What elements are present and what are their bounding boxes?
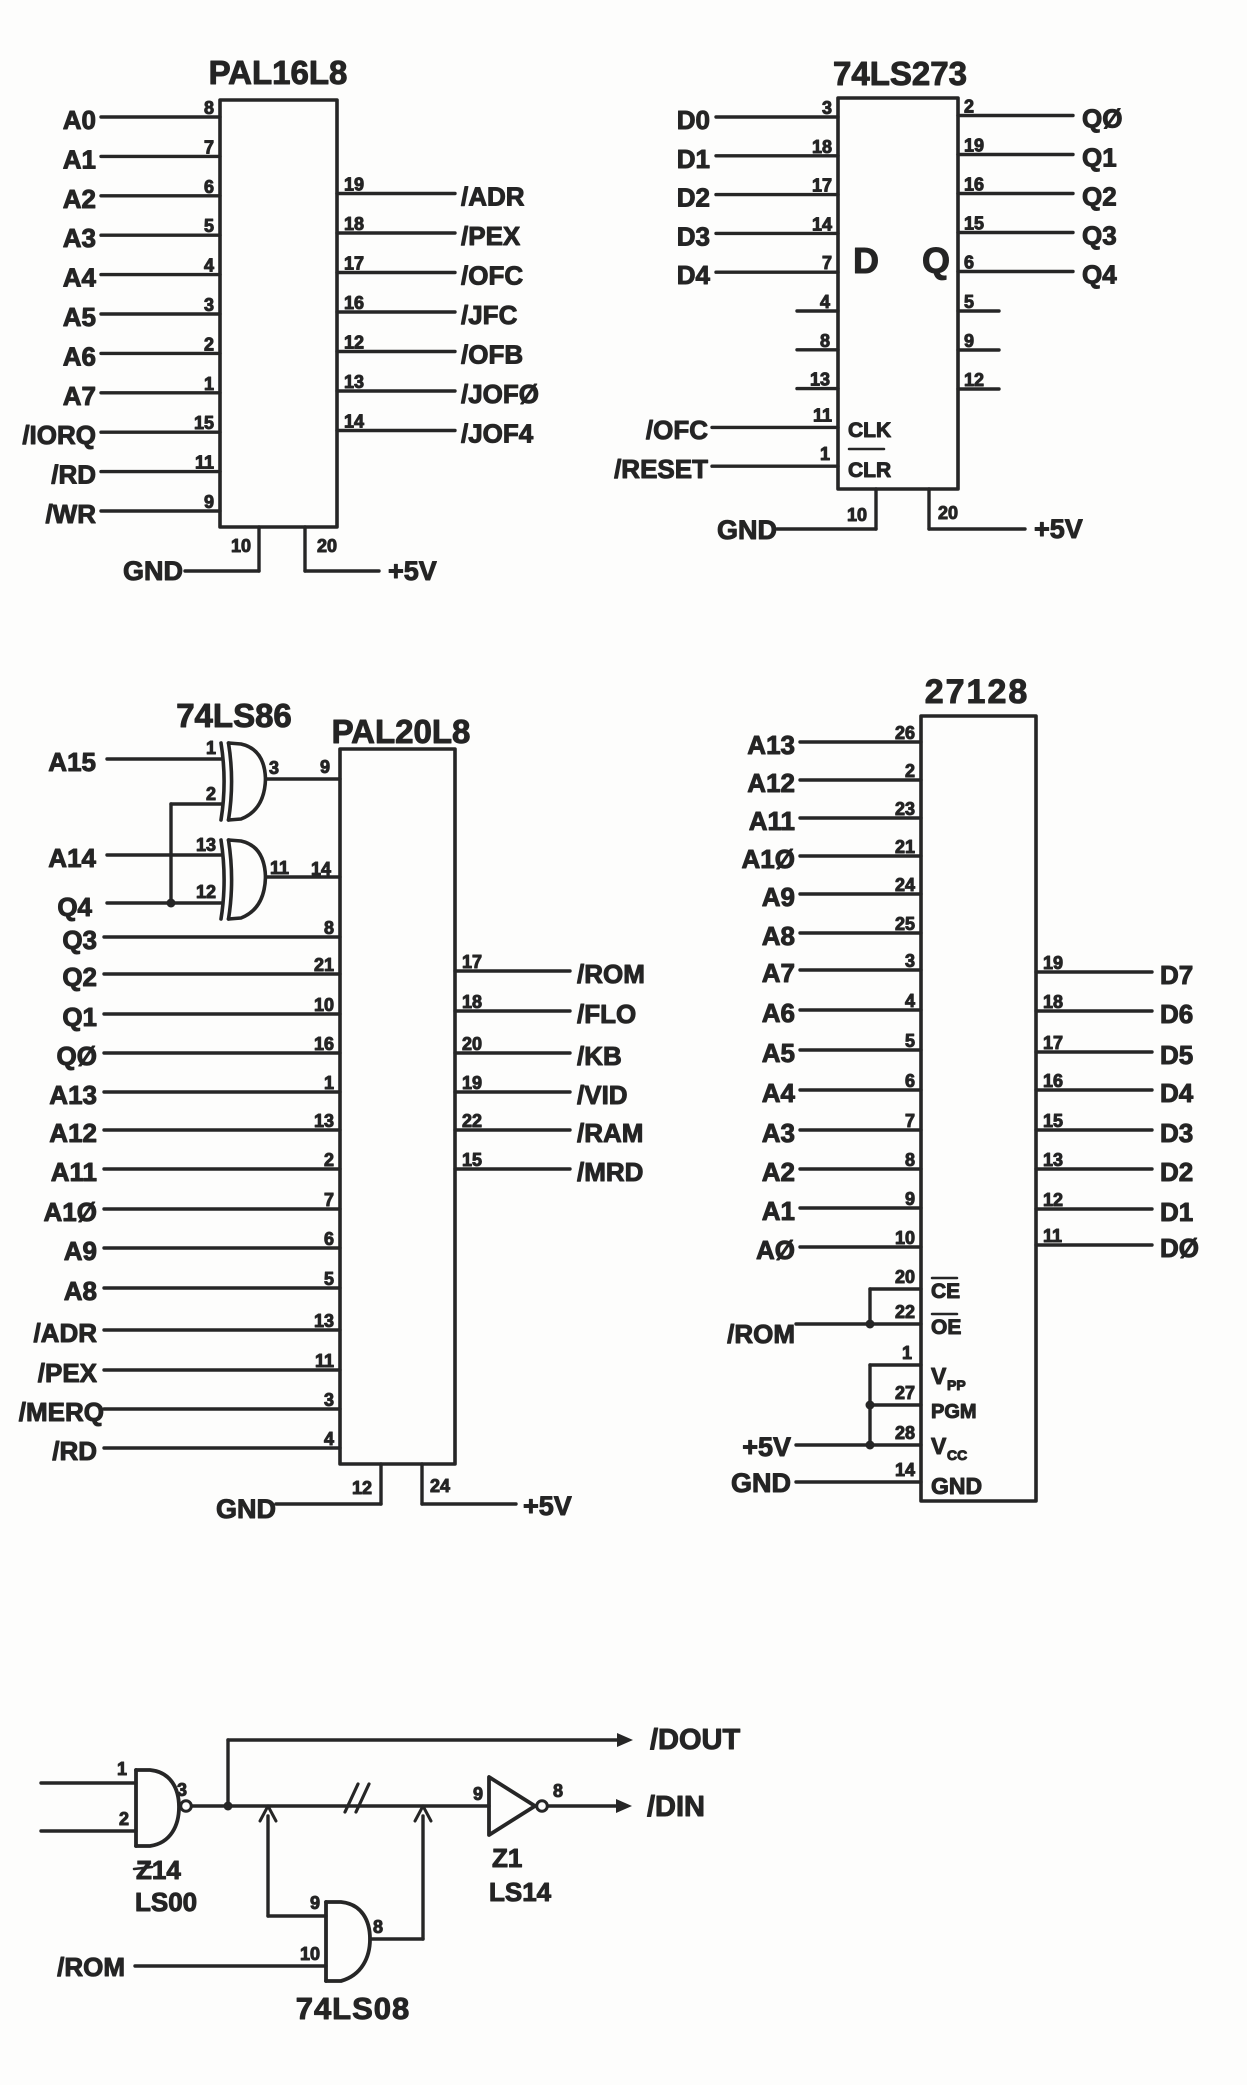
wire U2 pin 3 input D0 — [677, 98, 838, 135]
svg-text:D1: D1 — [677, 144, 710, 174]
wire U5 pin 4 input A6 — [762, 991, 921, 1028]
svg-text:Q4: Q4 — [57, 892, 92, 922]
svg-text:A9: A9 — [762, 882, 795, 912]
svg-text:14: 14 — [895, 1460, 915, 1480]
wire net Q4 branch to U3a pin 2 — [169, 804, 172, 903]
wire Z14 pin 3 output node — [177, 1780, 489, 1806]
IC U1 PAL16L8 body — [220, 100, 337, 527]
svg-text:D: D — [853, 240, 879, 281]
wire U2 pin 13 unused input stub — [797, 370, 838, 390]
wire U4 pin 4 input /RD — [52, 1429, 340, 1466]
svg-text:19: 19 — [462, 1073, 482, 1093]
svg-text:V: V — [931, 1433, 947, 1459]
svg-text:A5: A5 — [762, 1038, 795, 1068]
svg-text:1: 1 — [204, 374, 214, 394]
svg-text:AØ: AØ — [756, 1235, 795, 1265]
wire U1 pin 9 input /WR — [45, 492, 220, 529]
wire U5 pin 1 VPP stub — [870, 1343, 966, 1393]
svg-text:27128: 27128 — [925, 673, 1030, 711]
svg-text:/VID: /VID — [577, 1080, 628, 1110]
svg-text:17: 17 — [1043, 1033, 1063, 1053]
svg-text:+5V: +5V — [742, 1432, 791, 1462]
svg-text:V: V — [931, 1363, 947, 1389]
wire U4 pin 16 input QØ — [57, 1034, 340, 1071]
wire U5 pin 25 input A8 — [762, 914, 921, 951]
wire U4 pin 15 output /MRD — [455, 1150, 643, 1187]
wire U5 pin 9 input A1 — [762, 1189, 921, 1226]
svg-text:3: 3 — [822, 98, 832, 118]
svg-text:12: 12 — [1043, 1190, 1063, 1210]
svg-text:/PEX: /PEX — [38, 1358, 98, 1388]
wire U1 pin 16 output /JFC — [337, 293, 518, 330]
svg-text:21: 21 — [314, 955, 334, 975]
wire U1 pin 19 output /ADR — [337, 175, 525, 212]
svg-text:Q3: Q3 — [1082, 221, 1117, 251]
svg-text:A0: A0 — [63, 105, 96, 135]
svg-text:3: 3 — [905, 951, 915, 971]
svg-text:13: 13 — [314, 1311, 334, 1331]
wire U5 pin 27 PGM stub — [870, 1383, 977, 1423]
svg-text:7: 7 — [324, 1190, 334, 1210]
svg-text:1: 1 — [902, 1343, 912, 1363]
wire U5 pin 22 OE input /ROM — [727, 1302, 961, 1349]
junction /ROM at OE — [866, 1320, 875, 1329]
wire Z14 pin 1 input — [41, 1759, 136, 1783]
svg-text:74LS273: 74LS273 — [833, 55, 967, 92]
svg-text:Q4: Q4 — [1082, 260, 1117, 290]
wire U5 pin 15 output D3 — [1036, 1111, 1193, 1148]
wire U1 pin 7 input A1 — [63, 137, 220, 174]
svg-text:A7: A7 — [762, 958, 795, 988]
svg-text:10: 10 — [847, 505, 867, 525]
svg-text:/ROM: /ROM — [577, 959, 645, 989]
svg-text:4: 4 — [905, 991, 915, 1011]
wire U5 pin 18 output D6 — [1036, 992, 1193, 1029]
svg-text:A2: A2 — [63, 184, 96, 214]
svg-text:9: 9 — [310, 1893, 320, 1913]
wire U5 pin 26 input A13 — [747, 723, 921, 760]
svg-text:9: 9 — [320, 757, 330, 777]
wire U1 pin 13 output /JOFØ — [337, 372, 539, 409]
svg-text:D1: D1 — [1160, 1197, 1193, 1227]
wire Z15 pin 10 input /ROM — [57, 1944, 326, 1982]
wire Z14 pin 2 input — [41, 1809, 136, 1831]
svg-text:11: 11 — [813, 405, 832, 425]
svg-text:A6: A6 — [63, 341, 96, 371]
svg-text:A12: A12 — [49, 1118, 97, 1148]
svg-text:+5V: +5V — [523, 1491, 572, 1521]
svg-text:19: 19 — [1043, 953, 1063, 973]
svg-text:6: 6 — [324, 1229, 334, 1249]
svg-text:8: 8 — [373, 1917, 383, 1937]
svg-text:2: 2 — [204, 334, 214, 354]
svg-text:16: 16 — [964, 175, 984, 195]
svg-text:QØ: QØ — [57, 1041, 97, 1071]
wire U4 pin 21 input Q2 — [62, 955, 340, 992]
svg-text:D3: D3 — [677, 221, 710, 251]
svg-text:2: 2 — [324, 1150, 334, 1170]
svg-text:15: 15 — [194, 413, 214, 433]
svg-text:/MERQ: /MERQ — [19, 1397, 104, 1427]
svg-text:/OFC: /OFC — [461, 261, 523, 291]
svg-text:9: 9 — [473, 1784, 483, 1804]
wire U5 pin 2 input A12 — [747, 761, 921, 798]
svg-text:A1: A1 — [63, 144, 96, 174]
ground U2 pin 10 GND — [717, 489, 876, 545]
svg-text:LS14: LS14 — [489, 1877, 552, 1907]
wire U4 pin 20 output /KB — [455, 1034, 622, 1071]
svg-text:18: 18 — [1043, 992, 1063, 1012]
wire U2 pin 11 CLK input /OFC — [646, 405, 891, 445]
wire U2 pin 4 unused input stub — [797, 292, 838, 312]
svg-text:8: 8 — [905, 1150, 915, 1170]
svg-text:A5: A5 — [63, 302, 96, 332]
svg-text:/DIN: /DIN — [647, 1791, 705, 1823]
wire U5 pin 16 output D4 — [1036, 1071, 1194, 1108]
svg-text:5: 5 — [905, 1031, 915, 1051]
svg-text:/RESET: /RESET — [614, 454, 708, 484]
wire U1 pin 5 input A3 — [63, 216, 220, 253]
svg-text:/RD: /RD — [52, 1436, 97, 1466]
svg-text:2: 2 — [964, 97, 974, 117]
wire U5 pin 3 input A7 — [762, 951, 921, 988]
svg-text:D4: D4 — [677, 260, 711, 290]
svg-text:Q1: Q1 — [62, 1002, 97, 1032]
svg-text:4: 4 — [820, 292, 830, 312]
wire U5 pin 6 input A4 — [762, 1071, 921, 1108]
svg-text:/MRD: /MRD — [577, 1157, 643, 1187]
svg-text:11: 11 — [270, 858, 289, 878]
wire U5 pin 20 CE stub — [870, 1267, 960, 1303]
svg-text:/ADR: /ADR — [461, 182, 525, 212]
svg-text:18: 18 — [812, 137, 832, 157]
svg-text:A8: A8 — [64, 1276, 97, 1306]
svg-text:4: 4 — [324, 1429, 334, 1449]
svg-text:5: 5 — [204, 216, 214, 236]
wire U5 pin 24 input A9 — [762, 875, 921, 912]
wire U1 pin 17 output /OFC — [337, 254, 523, 291]
wire U3a pin 3 output to U4 pin 9 — [266, 757, 341, 779]
svg-text:/JOF4: /JOF4 — [461, 419, 534, 449]
svg-text:Q: Q — [922, 240, 950, 281]
power U1 pin 20 +5V — [305, 527, 437, 586]
svg-text:D5: D5 — [1160, 1040, 1193, 1070]
svg-text:7: 7 — [905, 1111, 915, 1131]
svg-text:8: 8 — [204, 98, 214, 118]
svg-text:14: 14 — [311, 859, 331, 879]
svg-text:/ROM: /ROM — [57, 1952, 125, 1982]
svg-text:19: 19 — [344, 175, 364, 195]
wire U5 pin 13 output D2 — [1036, 1150, 1193, 1187]
wire U4 pin 17 output /ROM — [455, 952, 645, 989]
svg-text:D2: D2 — [1160, 1157, 1193, 1187]
svg-text:3: 3 — [324, 1390, 334, 1410]
wire U5 pin 17 output D5 — [1036, 1033, 1193, 1070]
wire Z15 pin 8 output — [370, 1806, 431, 1939]
wire U4 pin 3 input /MERQ — [19, 1390, 340, 1427]
svg-text:1: 1 — [820, 444, 830, 464]
svg-text:2: 2 — [905, 761, 915, 781]
svg-text:1: 1 — [324, 1073, 334, 1093]
svg-text:A11: A11 — [51, 1157, 97, 1187]
svg-text:/JFC: /JFC — [461, 300, 518, 330]
wire arrow from Z15a pin 8 into /DIN net — [260, 1806, 326, 1916]
svg-text:/JOFØ: /JOFØ — [461, 379, 539, 409]
junction Q4 branch — [167, 899, 176, 908]
svg-text:17: 17 — [462, 952, 482, 972]
svg-text:A2: A2 — [762, 1157, 795, 1187]
svg-text:A6: A6 — [762, 998, 795, 1028]
wire U2 pin 6 output Q4 — [958, 253, 1117, 290]
svg-text:GND: GND — [931, 1473, 982, 1499]
svg-text:7: 7 — [822, 253, 832, 273]
svg-text:8: 8 — [553, 1781, 563, 1801]
wire U3a pin 2 input from Q4 — [171, 784, 221, 804]
svg-text:/ROM: /ROM — [727, 1319, 795, 1349]
svg-text:9: 9 — [964, 331, 974, 351]
svg-text:GND: GND — [717, 515, 777, 545]
svg-text:A9: A9 — [64, 1236, 97, 1266]
svg-text:/RD: /RD — [51, 460, 96, 490]
svg-text:25: 25 — [895, 914, 915, 934]
svg-text:PAL16L8: PAL16L8 — [209, 54, 348, 91]
wire U2 pin 5 unused output stub — [958, 292, 999, 312]
svg-text:13: 13 — [344, 372, 364, 392]
wire U2 pin 1 CLR input /RESET — [614, 444, 891, 484]
svg-text:13: 13 — [810, 370, 830, 390]
wire U2 pin 17 input D2 — [677, 176, 838, 213]
svg-text:20: 20 — [895, 1267, 915, 1287]
svg-text:16: 16 — [1043, 1071, 1063, 1091]
svg-text:A1Ø: A1Ø — [742, 844, 795, 874]
wire U4 pin 6 input A9 — [64, 1229, 340, 1266]
junction /DOUT branch — [224, 1802, 233, 1811]
svg-text:/WR: /WR — [45, 499, 96, 529]
svg-text:18: 18 — [462, 992, 482, 1012]
svg-text:A3: A3 — [63, 223, 96, 253]
svg-text:9: 9 — [905, 1189, 915, 1209]
svg-text:/PEX: /PEX — [461, 221, 521, 251]
svg-text:5: 5 — [324, 1269, 334, 1289]
svg-text:Q1: Q1 — [1082, 143, 1117, 173]
svg-text:15: 15 — [964, 214, 984, 234]
inverter Z1 74LS14 — [473, 1777, 547, 1835]
svg-text:PP: PP — [947, 1377, 966, 1393]
svg-text:/OFC: /OFC — [646, 415, 708, 445]
svg-text:24: 24 — [430, 1476, 450, 1496]
svg-text:PGM: PGM — [931, 1401, 977, 1423]
svg-text:14: 14 — [344, 412, 364, 432]
wire U3b pin 13 input A14 — [48, 835, 221, 873]
svg-text:18: 18 — [344, 214, 364, 234]
svg-text:Q3: Q3 — [62, 925, 97, 955]
svg-text:2: 2 — [206, 784, 216, 804]
wire U5 pin 28 VCC input +5V — [742, 1423, 967, 1463]
svg-text:D4: D4 — [1160, 1078, 1194, 1108]
XOR gate U3a — [221, 743, 266, 820]
wire U5 pin 5 input A5 — [762, 1031, 921, 1068]
IC U2 74LS273 body — [838, 98, 958, 489]
wire net +5V branch VPP-PGM-VCC — [868, 1365, 871, 1445]
svg-text:21: 21 — [895, 837, 915, 857]
wire U1 pin 4 input A4 — [63, 256, 220, 293]
svg-text:3: 3 — [177, 1780, 187, 1800]
svg-text:A1Ø: A1Ø — [44, 1197, 97, 1227]
svg-text:Q2: Q2 — [1082, 182, 1117, 212]
svg-text:CLR: CLR — [848, 459, 891, 482]
wire net /DOUT — [228, 1724, 741, 1806]
svg-text:GND: GND — [216, 1494, 276, 1524]
svg-text:24: 24 — [895, 875, 915, 895]
wire U4 pin 8 input Q3 — [62, 918, 340, 955]
svg-text:+5V: +5V — [1034, 514, 1083, 544]
wire U2 pin 2 output QØ — [958, 97, 1122, 134]
wire U1 pin 2 input A6 — [63, 334, 220, 371]
svg-text:26: 26 — [895, 723, 915, 743]
svg-text:A13: A13 — [747, 730, 795, 760]
svg-text:20: 20 — [462, 1034, 482, 1054]
svg-text:11: 11 — [315, 1351, 334, 1371]
wire U1 pin 18 output /PEX — [337, 214, 521, 251]
svg-text:19: 19 — [964, 136, 984, 156]
wire U3b pin 11 output to U4 pin 14 — [266, 858, 341, 879]
wire U5 pin 7 input A3 — [762, 1111, 921, 1148]
svg-text:+5V: +5V — [388, 556, 437, 586]
svg-text:7: 7 — [204, 137, 214, 157]
svg-text:12: 12 — [344, 333, 364, 353]
svg-text:10: 10 — [231, 536, 251, 556]
wire U5 pin 11 output DØ — [1036, 1226, 1199, 1263]
svg-text:A12: A12 — [747, 768, 795, 798]
NAND gate Z14 74LS00 — [136, 1770, 191, 1846]
svg-text:74LS86: 74LS86 — [176, 697, 292, 734]
wire U4 pin 2 input A11 — [51, 1150, 340, 1187]
wire U5 pin 23 input A11 — [749, 799, 921, 836]
svg-text:A14: A14 — [48, 843, 96, 873]
svg-text:17: 17 — [812, 176, 832, 196]
svg-text:A1: A1 — [762, 1196, 795, 1226]
power U2 pin 20 +5V — [929, 489, 1083, 544]
svg-text:D6: D6 — [1160, 999, 1193, 1029]
svg-text:/RAM: /RAM — [577, 1118, 643, 1148]
svg-text:12: 12 — [352, 1478, 372, 1498]
wire U2 pin 18 input D1 — [677, 137, 838, 174]
wire U5 pin 8 input A2 — [762, 1150, 921, 1187]
svg-text:A15: A15 — [48, 747, 96, 777]
svg-text:17: 17 — [344, 254, 364, 274]
IC U4 PAL20L8 body — [340, 749, 455, 1464]
svg-text:10: 10 — [300, 1944, 320, 1964]
wire U4 pin 7 input A1Ø — [44, 1190, 340, 1227]
wire U2 pin 14 input D3 — [677, 214, 838, 251]
svg-text:3: 3 — [204, 295, 214, 315]
svg-text:4: 4 — [204, 256, 214, 276]
wire U4 pin 11 input /PEX — [38, 1351, 340, 1388]
svg-text:23: 23 — [895, 799, 915, 819]
wire U2 pin 19 output Q1 — [958, 136, 1117, 173]
svg-text:22: 22 — [895, 1302, 915, 1322]
wire U4 pin 13 input /ADR — [33, 1311, 340, 1348]
wire U3b pin 12 input Q4 — [57, 882, 221, 922]
svg-text:13: 13 — [314, 1111, 334, 1131]
svg-text:8: 8 — [820, 331, 830, 351]
svg-text:14: 14 — [812, 214, 832, 234]
wire U1 pin 11 input /RD — [51, 453, 220, 490]
svg-text:GND: GND — [123, 556, 183, 586]
wire U2 pin 16 output Q2 — [958, 175, 1117, 212]
wire U5 pin 19 output D7 — [1036, 953, 1193, 990]
svg-text:13: 13 — [1043, 1150, 1063, 1170]
svg-text:15: 15 — [1043, 1111, 1063, 1131]
svg-text:74LS08: 74LS08 — [296, 1991, 411, 2026]
wire net /ROM branch CE-OE — [868, 1289, 871, 1324]
wire U1 pin 14 output /JOF4 — [337, 412, 534, 449]
svg-text:A4: A4 — [63, 263, 97, 293]
svg-text:20: 20 — [938, 503, 958, 523]
svg-text:1: 1 — [206, 738, 216, 758]
svg-text:QØ: QØ — [1082, 104, 1122, 134]
svg-text:Q2: Q2 — [62, 962, 97, 992]
ground U4 pin 12 GND — [216, 1464, 381, 1524]
svg-text:/OFB: /OFB — [461, 340, 523, 370]
svg-text:D0: D0 — [677, 105, 710, 135]
svg-text:A8: A8 — [762, 921, 795, 951]
XOR gate U3b — [221, 840, 266, 919]
AND gate Z15 74LS08 — [326, 1902, 370, 1981]
wire U1 pin 15 input /IORQ — [22, 413, 220, 450]
svg-text:DØ: DØ — [1160, 1233, 1199, 1263]
svg-text:11: 11 — [195, 453, 214, 473]
wire U1 pin 3 input A5 — [63, 295, 220, 332]
wire U4 pin 18 output /FLO — [455, 992, 636, 1029]
wire U4 pin 10 input Q1 — [62, 995, 340, 1032]
svg-text:9: 9 — [204, 492, 214, 512]
svg-text:6: 6 — [204, 177, 214, 197]
wire U1 pin 12 output /OFB — [337, 333, 523, 370]
wire U4 pin 22 output /RAM — [455, 1111, 643, 1148]
wire U1 pin 1 input A7 — [63, 374, 220, 411]
wire U2 pin 8 unused input stub — [797, 331, 838, 351]
svg-text:13: 13 — [196, 835, 216, 855]
wire U5 pin 10 input AØ — [756, 1228, 921, 1265]
svg-text:10: 10 — [314, 995, 334, 1015]
svg-text:A11: A11 — [749, 806, 795, 836]
svg-text:5: 5 — [964, 292, 974, 312]
wire U1 pin 8 input A0 — [63, 98, 220, 135]
label Z14 — [134, 1855, 181, 1885]
svg-text:OE: OE — [931, 1316, 961, 1339]
svg-text:27: 27 — [895, 1383, 915, 1403]
svg-text:LS00: LS00 — [135, 1887, 197, 1917]
svg-text:PAL20L8: PAL20L8 — [332, 713, 471, 750]
svg-text:12: 12 — [196, 882, 216, 902]
svg-text:8: 8 — [324, 918, 334, 938]
wire U4 pin 19 output /VID — [455, 1073, 628, 1110]
svg-text:15: 15 — [462, 1150, 482, 1170]
bus break mark — [345, 1784, 369, 1812]
IC U5 27128 body — [921, 716, 1036, 1501]
svg-text:CE: CE — [931, 1280, 960, 1303]
wire U5 pin 12 output D1 — [1036, 1190, 1193, 1227]
svg-text:12: 12 — [964, 370, 984, 390]
svg-text:16: 16 — [314, 1034, 334, 1054]
svg-text:11: 11 — [1043, 1226, 1062, 1246]
svg-text:D2: D2 — [677, 183, 710, 213]
wire U3a pin 1 input A15 — [48, 738, 221, 777]
svg-text:GND: GND — [731, 1468, 791, 1498]
wire Z1 pin 8 output /DIN — [548, 1781, 705, 1823]
power U4 pin 24 +5V — [422, 1464, 572, 1521]
